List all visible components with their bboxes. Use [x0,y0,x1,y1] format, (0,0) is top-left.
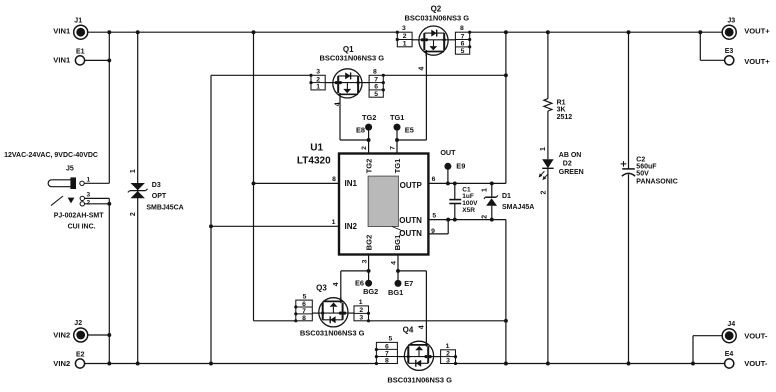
svg-text:7: 7 [461,33,465,40]
test point E8 TG2 [365,124,372,131]
wire top rail VIN1 (J1 to Q2) [88,31,398,33]
test point E9 OUT [444,163,451,170]
svg-text:PJ-002AH-SMT: PJ-002AH-SMT [54,212,105,219]
svg-text:VOUT-: VOUT- [744,331,768,340]
wire C2 column [628,32,630,169]
node VOUT+ junction R1 column [546,30,550,34]
svg-text:7: 7 [374,76,378,83]
wire Q1 row left (IN2 to Q1) [211,74,311,76]
connector J3 [722,25,736,39]
svg-text:1: 1 [482,188,489,192]
svg-text:5: 5 [432,212,436,219]
svg-text:TG2: TG2 [365,159,374,174]
node VIN1 junction J5 column [107,30,111,34]
wire J5 pin2 stub [85,203,110,205]
node J5 pin2/pin3 junction [107,202,111,206]
svg-text:E9: E9 [456,162,465,171]
svg-text:3K: 3K [557,107,566,114]
connector J1 [74,25,88,39]
svg-text:BG2: BG2 [365,235,374,251]
svg-text:VIN2: VIN2 [53,359,70,368]
svg-text:VIN2: VIN2 [53,331,70,340]
transistor Q1 [309,45,385,106]
svg-text:CUI INC.: CUI INC. [68,224,96,231]
wire D3 column [137,32,139,363]
svg-text:2: 2 [130,212,137,216]
svg-text:1: 1 [359,299,363,306]
svg-text:PANASONIC: PANASONIC [636,179,677,186]
svg-text:8: 8 [332,176,336,183]
svg-text:6: 6 [385,343,389,350]
connector J4 [722,329,736,343]
svg-text:R1: R1 [557,100,566,107]
svg-text:TG2: TG2 [362,113,376,122]
svg-text:SMBJ45CA: SMBJ45CA [146,205,183,212]
svg-text:Q1: Q1 [343,45,354,54]
svg-text:3: 3 [316,68,320,75]
svg-text:1: 1 [316,84,320,91]
transistor Q2 [396,4,472,70]
svg-text:VIN1: VIN1 [53,56,71,65]
connector J2 [74,328,88,342]
svg-text:J2: J2 [74,320,82,327]
node VOUT+ junction OUTP column [504,30,508,34]
svg-text:12VAC-24VAC, 9VDC-40VDC: 12VAC-24VAC, 9VDC-40VDC [4,152,98,159]
svg-text:4: 4 [418,67,425,71]
svg-text:8: 8 [373,68,377,75]
capacitor C1 [449,183,478,219]
svg-text:5: 5 [389,336,393,343]
resistor R1 3K [544,99,572,121]
svg-text:8: 8 [385,357,389,364]
svg-text:5: 5 [374,91,378,98]
svg-text:8: 8 [460,25,464,32]
svg-text:AB ON: AB ON [559,152,582,159]
svg-text:IN2: IN2 [345,222,358,231]
svg-text:3: 3 [86,192,90,199]
svg-text:GREEN: GREEN [559,169,584,176]
svg-text:E5: E5 [405,126,414,135]
terminal E4 [725,359,734,368]
svg-text:LT4320: LT4320 [297,155,331,166]
svg-text:E1: E1 [76,48,85,55]
node IN1 junction [252,181,256,185]
wire OUTP vertical [505,32,507,183]
svg-text:2: 2 [361,146,368,150]
wire IN2 stub to U1 pin1 [211,225,339,227]
wire J4 jog [692,336,694,364]
svg-text:OUTN: OUTN [399,229,422,238]
svg-text:TG1: TG1 [393,158,402,174]
svg-text:4: 4 [333,282,340,286]
svg-text:7: 7 [390,146,397,150]
node VOUT+ junction C2 column [627,30,631,34]
node IN2 junction [209,224,213,228]
terminal E2 [75,359,84,368]
svg-text:D1: D1 [502,193,511,200]
svg-text:2: 2 [316,76,320,83]
svg-text:J1: J1 [74,17,82,24]
svg-text:BG1: BG1 [388,288,403,297]
svg-text:1: 1 [403,41,407,48]
wire Q1 row right (Q1 to OUTP column) [383,74,506,76]
svg-text:Q4: Q4 [403,326,414,335]
svg-text:5: 5 [303,294,307,301]
wire VIN1 column down to J5 pin1 [108,32,110,183]
svg-text:9: 9 [431,228,435,235]
svg-text:3: 3 [402,25,406,32]
svg-text:2: 2 [86,199,90,206]
svg-text:VIN1: VIN1 [53,27,71,36]
svg-text:E3: E3 [725,48,734,55]
LED D2 GREEN [539,147,584,195]
terminal E1 [75,56,84,65]
svg-text:1: 1 [130,169,137,173]
svg-text:VOUT-: VOUT- [744,359,768,368]
svg-text:3: 3 [359,315,363,322]
wire J5 pin3 stub [85,197,110,199]
wire J5 pin1 stub [84,182,109,184]
svg-text:7: 7 [302,308,306,315]
svg-text:6: 6 [432,176,436,183]
wire OUTP horizontal (U1 pin6) [428,182,506,184]
diode D1 SMAJ45A [482,183,535,219]
svg-text:OUT: OUT [440,148,456,157]
terminal E3 [725,56,734,65]
wire bottom rail VOUT- (Q4 to E4) [456,363,725,365]
svg-text:TG1: TG1 [390,113,404,122]
svg-text:2: 2 [359,307,363,314]
svg-text:BSC031N06NS3 G: BSC031N06NS3 G [300,328,365,337]
svg-text:6: 6 [374,84,378,91]
transistor Q3 [294,282,370,337]
svg-text:50V: 50V [636,170,649,177]
wire VIN2 column (J5 to bottom rail) [108,198,110,363]
node VIN1 junction D3 column [136,30,140,34]
wire R1/D2 column [547,32,549,98]
svg-text:D2: D2 [563,160,572,167]
transistor Q4 [375,325,457,384]
wire E1 to VIN1 column [85,59,110,61]
svg-text:J4: J4 [727,321,735,328]
svg-text:E2: E2 [76,351,85,358]
svg-text:Q2: Q2 [431,4,442,13]
svg-text:3: 3 [446,358,450,365]
svg-text:1: 1 [446,343,450,350]
svg-text:X5R: X5R [462,207,475,214]
svg-text:560uF: 560uF [636,163,657,170]
svg-text:E7: E7 [404,279,413,288]
wire top rail VOUT+ (Q2 to J3) [470,31,723,33]
test point E5 TG1 [394,124,401,131]
svg-text:OPT: OPT [152,193,167,200]
svg-text:4: 4 [419,325,426,329]
svg-text:2: 2 [540,190,547,194]
svg-text:IN1: IN1 [345,179,358,188]
svg-text:1: 1 [332,219,336,226]
wire bottom rail VIN2 (E2 to Q4) [85,363,377,365]
wire Q3 row right (Q3 to OUTN column) [369,320,506,322]
svg-text:5: 5 [461,48,465,55]
wire OUTN vertical [505,220,507,364]
svg-text:SMAJ45A: SMAJ45A [502,204,534,211]
wire BG2 net: U1 pin3 to E6 and Q3 gate [368,255,370,284]
svg-text:2512: 2512 [557,114,573,121]
test point E6 BG2 [365,280,372,287]
svg-text:BSC031N06NS3 G: BSC031N06NS3 G [387,375,452,384]
svg-text:E8: E8 [356,126,365,135]
connector J5 barrel jack [4,152,104,231]
wire IN1 column to Q3 left [254,320,296,322]
svg-text:U1: U1 [310,143,323,154]
svg-text:BSC031N06NS3 G: BSC031N06NS3 G [404,13,469,22]
wire E3 jog [699,32,701,60]
wire IN1 stub to U1 pin8 [254,182,340,184]
node VIN1 junction IN1 column [252,30,256,34]
node VOUT+ junction E3 branch [698,30,702,34]
svg-text:1: 1 [540,147,547,151]
svg-text:BG1: BG1 [393,234,402,250]
svg-text:7: 7 [385,350,389,357]
wire U1 pin9 jog [428,233,448,235]
wire OUTN horizontal (U1 pin5) [428,219,506,221]
svg-text:J5: J5 [66,166,74,173]
svg-text:BG2: BG2 [363,287,378,296]
op-amp U1 LT4320 controller [297,143,436,265]
svg-text:4: 4 [391,261,398,265]
svg-text:OUTN: OUTN [399,216,422,225]
svg-text:Q3: Q3 [316,283,327,292]
svg-text:2: 2 [403,33,407,40]
wire TG1 net: U1 pin7 to E5 and Q2 gate [396,127,398,153]
wire IN2/VIN2 column [210,75,212,363]
svg-text:VOUT+: VOUT+ [744,27,770,36]
svg-text:J3: J3 [727,18,735,25]
svg-text:VOUT+: VOUT+ [744,57,770,66]
diode D3 bidirectional TVS [128,169,184,216]
svg-text:1: 1 [86,177,90,184]
svg-text:8: 8 [302,315,306,322]
wire TG2 net: U1 pin2 to E8 and Q1 gate [368,127,370,153]
svg-text:4: 4 [334,102,341,106]
svg-text:2: 2 [482,215,489,219]
svg-text:6: 6 [461,41,465,48]
svg-text:BSC031N06NS3 G: BSC031N06NS3 G [319,54,384,63]
svg-text:3: 3 [361,259,368,263]
svg-text:D3: D3 [152,182,161,189]
wire J2 stub [88,334,110,336]
capacitor C2 560uF [621,157,678,186]
svg-text:E4: E4 [725,351,734,358]
wire BG1 net: U1 pin4 to E7 and Q4 gate [397,255,399,284]
test point E7 BG1 [395,280,402,287]
wire IN1 column [253,32,255,321]
svg-text:OUTP: OUTP [400,181,423,190]
